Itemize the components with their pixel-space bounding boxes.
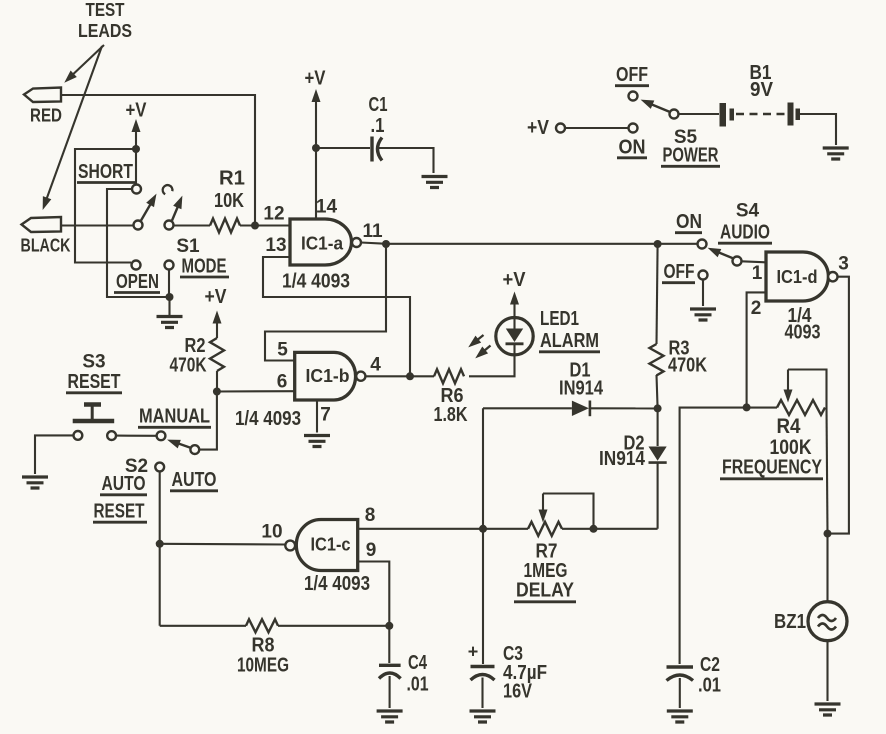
wire node to IC1-b pin 6 <box>217 390 295 392</box>
node S4 junction <box>654 240 662 248</box>
wire node down to R8 <box>159 544 161 626</box>
node R8 / pin9 / C4 junction <box>385 622 393 630</box>
svg-text:IC1-b: IC1-b <box>306 366 350 386</box>
+V supply arrow above C1 <box>305 68 327 149</box>
svg-text:AUTO: AUTO <box>172 469 217 491</box>
node D1/R3/D2 junction <box>654 404 662 412</box>
node pin 4 junction <box>406 372 414 380</box>
wire battery negative to ground <box>800 114 836 145</box>
node buzzer junction <box>824 530 832 538</box>
ground below S1 <box>157 297 183 328</box>
svg-text:ALARM: ALARM <box>540 330 599 352</box>
switch S4 AUDIO <box>662 201 772 284</box>
wire pin 11 down to IC1-b pin 5 <box>265 244 386 361</box>
svg-text:.01: .01 <box>698 675 721 697</box>
ground below C3 <box>470 711 496 722</box>
+V supply arrow above R2 <box>205 286 228 338</box>
svg-text:2: 2 <box>751 298 762 319</box>
test probe RED <box>24 88 62 126</box>
svg-text:12: 12 <box>263 204 284 225</box>
node +V / C1 junction <box>312 144 320 152</box>
svg-text:OFF: OFF <box>616 64 648 86</box>
svg-text:11: 11 <box>362 221 383 242</box>
svg-text:C1: C1 <box>369 94 388 116</box>
wire IC1-d output pin 3 down to buzzer node <box>830 277 849 534</box>
ground below BZ1 <box>815 704 841 715</box>
svg-text:16V: 16V <box>503 681 533 703</box>
svg-text:+V: +V <box>205 286 228 308</box>
node pin 2 junction <box>743 403 751 411</box>
wire S3 right terminal to S2 MANUAL contact <box>116 435 157 437</box>
svg-text:R1: R1 <box>219 168 245 190</box>
wire OPEN right contact to ground node <box>168 270 170 298</box>
svg-text:470K: 470K <box>170 355 207 377</box>
resistor R3 470K <box>650 338 708 377</box>
gate IC1-c (mirrored) <box>261 505 376 595</box>
ground below battery <box>823 148 849 159</box>
svg-text:R8: R8 <box>252 635 275 657</box>
battery B1 9V <box>720 62 801 127</box>
wire +V node to OPEN left contact <box>75 149 136 263</box>
node S1 ground junction <box>166 293 174 301</box>
svg-text:MANUAL: MANUAL <box>139 406 210 428</box>
potentiometer R7 1MEG DELAY <box>483 494 658 602</box>
wire C2 branch and frequency line <box>680 408 777 664</box>
svg-text:AUDIO: AUDIO <box>720 222 770 244</box>
wire IC1-d pin 2 down to frequency line <box>747 292 766 407</box>
wire S5 pole to battery <box>679 113 720 115</box>
svg-text:R4: R4 <box>777 415 801 438</box>
svg-text:1/4 4093: 1/4 4093 <box>304 573 370 595</box>
wire S2 AUTO contact down to pin10 node <box>159 471 161 543</box>
svg-text:1/4 4093: 1/4 4093 <box>282 271 350 293</box>
wire S4 node down to R3 <box>657 244 658 344</box>
svg-text:13: 13 <box>265 235 286 256</box>
node R2 / pin6 / S2 junction <box>213 388 221 396</box>
svg-text:.1: .1 <box>371 115 385 137</box>
ground below S4 OFF <box>690 309 716 320</box>
svg-text:RESET: RESET <box>94 501 145 523</box>
capacitor C2 .01 <box>667 654 722 708</box>
test probe BLACK <box>21 217 71 256</box>
wire R3 to D1 node <box>657 375 658 408</box>
wire pin 14 from +V node <box>315 148 317 219</box>
svg-text:1.8K: 1.8K <box>434 404 468 426</box>
wire IC1-c pin 9 down to R8/C4 node <box>358 562 390 626</box>
svg-text:+V: +V <box>126 100 148 122</box>
svg-text:IC1-c: IC1-c <box>311 535 351 555</box>
svg-text:OFF: OFF <box>664 261 695 283</box>
potentiometer R4 100K FREQUENCY <box>720 370 827 479</box>
wire C1 right plate to ground <box>379 148 434 173</box>
svg-text:6: 6 <box>277 372 288 393</box>
svg-text:1: 1 <box>752 263 763 284</box>
wire node to C1 left plate <box>316 147 370 149</box>
resistor R2 470K <box>170 335 225 377</box>
wire node down to S2 pole <box>199 392 217 450</box>
svg-text:.01: .01 <box>407 674 429 696</box>
svg-text:POWER: POWER <box>663 145 719 167</box>
svg-text:RED: RED <box>30 106 62 126</box>
svg-text:10MEG: 10MEG <box>237 655 289 677</box>
wire D1 anode from delay node corner <box>483 407 572 409</box>
svg-text:ON: ON <box>676 211 702 233</box>
node delay/C3 junction <box>479 525 487 533</box>
resistor R6 1.8K <box>434 369 468 426</box>
ground below C2 <box>667 711 693 722</box>
svg-text:7: 7 <box>320 405 331 426</box>
wire SHORT contact to ground rail <box>107 189 166 297</box>
gate IC1-d <box>751 252 849 344</box>
svg-text:3: 3 <box>838 254 849 275</box>
svg-text:C4: C4 <box>408 652 428 674</box>
svg-text:+V: +V <box>527 117 550 139</box>
wire IC1-b pin 7 to ground <box>316 400 318 433</box>
svg-text:IN914: IN914 <box>599 448 646 470</box>
svg-text:470K: 470K <box>668 355 707 377</box>
wire R1 to IC1-a pin 12 <box>240 224 290 226</box>
svg-text:S3: S3 <box>82 352 105 373</box>
ground below C1 <box>422 177 448 188</box>
buzzer BZ1 <box>774 534 847 701</box>
svg-text:9V: 9V <box>750 79 774 101</box>
svg-text:OPEN: OPEN <box>116 271 159 293</box>
svg-text:10K: 10K <box>214 190 244 212</box>
wire BLACK probe to S1 left pole <box>61 224 134 226</box>
wire R2 to pin 6 node <box>216 371 218 392</box>
pushbutton S3 RESET <box>66 352 122 441</box>
+V supply arrow above S1 <box>126 100 148 150</box>
svg-text:LEADS: LEADS <box>78 21 132 41</box>
gate IC1-b <box>235 340 381 431</box>
svg-text:1/4 4093: 1/4 4093 <box>235 408 301 430</box>
svg-text:BLACK: BLACK <box>21 236 71 256</box>
wire IC1-b output pin 4 to R6 <box>365 375 434 377</box>
svg-text:SHORT: SHORT <box>78 161 133 183</box>
capacitor C4 .01 <box>379 626 429 708</box>
svg-text:S1: S1 <box>176 236 200 257</box>
svg-text:IC1-a: IC1-a <box>301 234 344 254</box>
svg-text:S4: S4 <box>736 201 760 222</box>
wire RED probe to R1 right node <box>61 95 255 226</box>
wire D1 cathode to R3/D2 node <box>590 407 658 409</box>
svg-text:14: 14 <box>316 197 338 218</box>
resistor R8 10MEG <box>160 619 390 676</box>
wire IC1-c pin 8 to delay line <box>358 528 483 530</box>
label TEST LEADS <box>78 0 132 41</box>
svg-text:+V: +V <box>503 269 527 291</box>
svg-text:5: 5 <box>277 340 288 361</box>
wire +V node down to SHORT contact <box>135 149 137 185</box>
ground below S3 <box>22 477 48 488</box>
diode D1 IN914 <box>559 360 604 417</box>
svg-text:+: + <box>468 642 479 662</box>
switch S2 AUTO RESET <box>93 406 218 523</box>
wire IC1-a pin13 feedback from IC1-b output <box>263 257 410 376</box>
wire R6 to LED1 cathode <box>469 354 515 376</box>
svg-text:AUTO: AUTO <box>102 473 146 495</box>
switch S1 MODE <box>77 161 229 293</box>
svg-text:FREQUENCY: FREQUENCY <box>722 457 823 479</box>
svg-text:TEST: TEST <box>86 0 125 20</box>
svg-text:ON: ON <box>619 137 646 159</box>
svg-text:BZ1: BZ1 <box>774 611 806 633</box>
resistor R1 10K <box>210 168 245 233</box>
wire S1 right pole to R1 <box>174 224 211 226</box>
node R1 / red-lead junction <box>251 222 259 230</box>
capacitor C3 4.7uF 16V <box>468 642 547 709</box>
svg-text:9: 9 <box>366 540 377 561</box>
op-amp/gate IC1-a <box>263 197 383 293</box>
ground below pin 7 <box>304 436 330 447</box>
LED1 ALARM <box>465 269 600 362</box>
ground below C4 <box>377 711 403 722</box>
svg-text:MODE: MODE <box>182 256 227 278</box>
wire node to IC1-c pin 10 <box>160 543 286 546</box>
wire IC1-a output pin 11 to S4 <box>361 243 698 244</box>
svg-text:RESET: RESET <box>68 371 121 393</box>
wire S3 left terminal to ground <box>35 435 74 474</box>
node +V junction <box>132 145 140 153</box>
wire S4 pole to IC1-d pin 1 <box>742 261 767 262</box>
svg-text:LED1: LED1 <box>540 308 579 330</box>
node S2 / pin 10 junction <box>156 540 164 548</box>
svg-text:4: 4 <box>370 355 381 376</box>
svg-text:DELAY: DELAY <box>516 580 575 602</box>
svg-text:C2: C2 <box>700 654 720 676</box>
svg-text:4093: 4093 <box>785 322 821 344</box>
leader arrow to RED probe <box>61 45 104 86</box>
wire R4 down to buzzer node <box>827 408 828 534</box>
node pin 11 junction <box>382 240 390 248</box>
leader arrow to BLACK probe <box>38 46 102 211</box>
svg-text:10: 10 <box>261 522 282 543</box>
switch S5 POWER <box>527 64 720 167</box>
svg-text:IC1-d: IC1-d <box>777 267 818 287</box>
svg-text:IN914: IN914 <box>559 378 604 400</box>
svg-text:8: 8 <box>365 505 376 526</box>
wire corner down through R7 line to C3 <box>482 408 484 664</box>
diode D2 IN914 <box>599 408 667 528</box>
capacitor C1 .1 <box>369 94 388 162</box>
wire S4 OFF contact to ground <box>702 280 704 307</box>
svg-text:+V: +V <box>305 68 327 90</box>
